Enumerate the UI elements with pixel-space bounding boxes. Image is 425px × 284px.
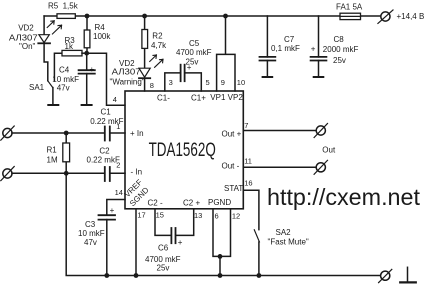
op-amp U1 TDA1562Q chip body — [125, 91, 243, 209]
svg-text:47v: 47v — [84, 238, 97, 247]
svg-text:+: + — [178, 238, 183, 247]
capacitor C6 — [170, 228, 172, 243]
capacitor C7 — [266, 16, 268, 57]
svg-text:C4: C4 — [59, 65, 70, 74]
ground (C8) — [314, 76, 324, 78]
resistor R1 — [65, 133, 67, 173]
svg-text:C1+: C1+ — [191, 93, 206, 102]
svg-text:3: 3 — [169, 78, 173, 87]
input terminal bottom — [3, 169, 12, 178]
node R4 top bus junction — [85, 14, 90, 19]
svg-text:13: 13 — [194, 211, 202, 220]
svg-text:2000 mkF: 2000 mkF — [323, 45, 359, 54]
svg-text:16: 16 — [244, 178, 252, 187]
ground (C4) — [82, 104, 92, 106]
svg-text:C3: C3 — [85, 220, 96, 229]
ground symbol bottom right — [407, 267, 409, 282]
svg-text:C2 -: C2 - — [148, 199, 163, 208]
svg-text:VD2: VD2 — [119, 59, 135, 68]
node R1 top junction — [64, 131, 69, 136]
node pin6/12 junction — [218, 254, 223, 259]
svg-text:2: 2 — [116, 160, 120, 169]
wire pin 15 to C6 — [155, 209, 171, 236]
svg-text:C1-: C1- — [157, 93, 170, 102]
svg-text:1M: 1M — [47, 155, 58, 164]
LED VD2 "On" — [39, 35, 49, 43]
svg-text:C5: C5 — [189, 39, 200, 48]
wire C6 to pin 13 — [176, 209, 194, 236]
svg-text:4700 mkF: 4700 mkF — [176, 48, 212, 57]
wire bus after fuse to terminal — [361, 15, 382, 17]
svg-text:АЛ307: АЛ307 — [9, 34, 38, 43]
wire pin 17 to bus — [135, 209, 137, 276]
svg-text:1: 1 — [116, 122, 120, 131]
switch SA1 blade — [48, 81, 53, 88]
capacitor C1 — [104, 127, 106, 141]
LED VD2 "Warning" arrows — [150, 55, 157, 62]
svg-text:6: 6 — [215, 211, 219, 220]
wire bottom ground bus — [66, 173, 380, 275]
node C3 bus junction — [104, 273, 109, 278]
svg-text:0,1 mkF: 0,1 mkF — [271, 44, 300, 53]
svg-text:TDA1562Q: TDA1562Q — [149, 140, 216, 161]
node R1 bottom junction — [64, 171, 69, 176]
svg-text:"On": "On" — [19, 42, 36, 51]
svg-text:Out +: Out + — [222, 130, 242, 139]
node R2 top bus junction — [142, 14, 147, 19]
svg-text:5: 5 — [206, 78, 210, 87]
svg-text:+ In: + In — [130, 129, 144, 138]
svg-text:25v: 25v — [333, 56, 346, 65]
node R4/R3/C4 junction — [84, 51, 89, 56]
wire SA2 to bus — [258, 242, 260, 276]
capacitor C5 with pins 3 and 5 — [165, 73, 180, 91]
svg-text:STAT: STAT — [224, 184, 243, 193]
wire input top to C1 — [12, 132, 104, 134]
wire node to pin 4 — [87, 53, 125, 105]
svg-text:4: 4 — [113, 95, 117, 104]
wire pin 11 to Out- terminal — [243, 166, 316, 168]
svg-text:"Warning": "Warning" — [110, 77, 145, 86]
wire pin 7 to Out+ terminal — [243, 130, 316, 132]
svg-text:1,5k: 1,5k — [63, 2, 79, 11]
svg-text:100k: 100k — [93, 32, 111, 41]
LED VD2 "On" arrows — [47, 21, 54, 28]
svg-text:1k: 1k — [65, 42, 74, 51]
svg-text:"Fast Mute": "Fast Mute" — [268, 237, 309, 246]
wire R5 left drop to LED — [43, 16, 45, 35]
node SA2 bus junction — [257, 273, 262, 278]
svg-text:+14,4 В: +14,4 В — [397, 12, 425, 21]
svg-text:4,7k: 4,7k — [151, 41, 167, 50]
resistor R5 — [57, 14, 75, 19]
node VP bus junction — [223, 14, 228, 19]
svg-text:C7: C7 — [284, 35, 295, 44]
svg-text:C8: C8 — [334, 35, 345, 44]
wire VP1 VP2 pins 9 10 — [217, 16, 235, 91]
svg-text:8: 8 — [150, 81, 154, 90]
switch SA2 blade — [254, 230, 259, 242]
ground (C7) — [263, 76, 273, 78]
svg-text:R2: R2 — [152, 32, 163, 41]
svg-text:25v: 25v — [157, 264, 170, 273]
input terminal top — [3, 128, 12, 137]
terminal ground bottom right — [381, 271, 390, 280]
wire SA1 to ground — [52, 88, 54, 105]
terminal Out+ — [316, 126, 325, 135]
wire pin 14 to C3 — [107, 200, 125, 216]
svg-text:C6: C6 — [158, 243, 169, 252]
svg-text:17: 17 — [137, 210, 145, 219]
svg-text:12: 12 — [232, 211, 240, 220]
capacitor C2 — [104, 167, 106, 181]
svg-text:VP1 VP2: VP1 VP2 — [210, 93, 243, 102]
svg-text:SA1: SA1 — [29, 83, 45, 92]
wire pins 6 and 12 to ground bar — [213, 209, 231, 276]
terminal Out- — [316, 163, 325, 172]
svg-text:0.22 mkF: 0.22 mkF — [87, 155, 120, 164]
wire pin 16 STAT to SA2 — [243, 190, 259, 229]
svg-text:+: + — [311, 44, 316, 53]
svg-text:Out -: Out - — [222, 162, 240, 171]
svg-text:15: 15 — [156, 210, 164, 219]
wire LED to SA1 — [44, 43, 48, 81]
svg-text:10 mkF: 10 mkF — [78, 229, 105, 238]
svg-text:АЛ307: АЛ307 — [112, 68, 142, 77]
svg-text:SA2: SA2 — [276, 228, 292, 237]
svg-text:+: + — [187, 63, 192, 72]
resistor R2 — [144, 16, 146, 68]
wire LED to pin 8 — [144, 78, 146, 91]
resistor R4 — [86, 16, 88, 53]
terminal +14,4 B — [381, 12, 390, 21]
svg-text:+: + — [110, 206, 115, 215]
svg-text:9: 9 — [221, 78, 225, 87]
svg-text:11: 11 — [244, 156, 252, 165]
wire +V top bus — [44, 15, 340, 17]
ground (SA1) — [48, 104, 58, 106]
svg-text:Out: Out — [322, 146, 336, 155]
svg-text:PGND: PGND — [208, 198, 231, 207]
fuse FA1 — [340, 13, 361, 19]
svg-text:14: 14 — [115, 188, 123, 197]
svg-text:C2: C2 — [99, 147, 110, 156]
svg-text:7: 7 — [244, 121, 248, 130]
svg-text:R5: R5 — [48, 2, 59, 11]
node pin6/12 bus junction — [218, 273, 223, 278]
capacitor C8 — [318, 16, 320, 57]
LED VD2 "Warning" — [139, 68, 150, 77]
svg-text:C1: C1 — [101, 107, 112, 116]
svg-text:47v: 47v — [57, 84, 70, 93]
resistor R3 — [62, 50, 82, 56]
wire input bottom to C2 — [12, 172, 104, 174]
wire R3 left contact — [54, 53, 62, 80]
svg-text:+: + — [90, 65, 95, 74]
svg-text:FA1 5A: FA1 5A — [336, 2, 363, 11]
wire R3 right to node — [82, 52, 87, 54]
capacitor C3 — [99, 214, 116, 216]
svg-text:C2 +: C2 + — [183, 199, 200, 208]
svg-text:- In: - In — [131, 168, 143, 177]
capacitor C4 — [86, 53, 88, 70]
svg-text:VD2: VD2 — [18, 23, 34, 32]
svg-text:R4: R4 — [95, 23, 106, 32]
svg-text:10: 10 — [237, 78, 245, 87]
svg-text:R1: R1 — [47, 146, 58, 155]
node pin17 bus junction — [134, 273, 139, 278]
svg-text:http://cxem.net: http://cxem.net — [267, 184, 420, 210]
